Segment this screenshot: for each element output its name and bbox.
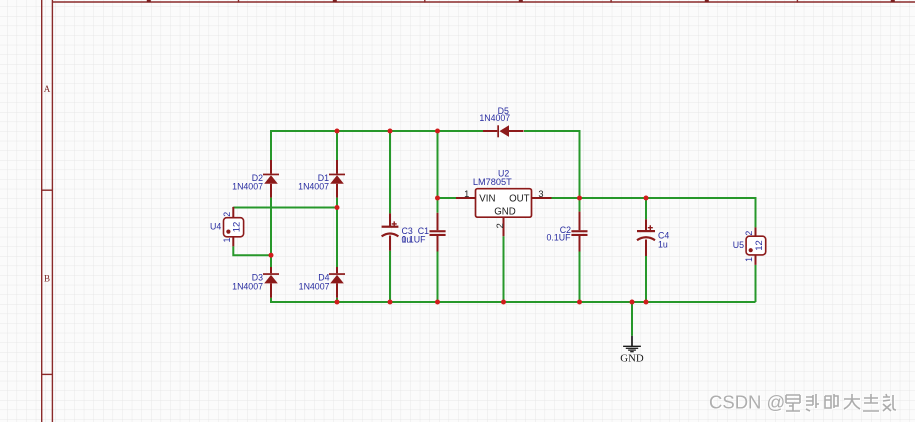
svg-text:1N4007: 1N4007 — [298, 182, 329, 192]
D5 anode pin — [509, 130, 524, 132]
diode D3 1N4007 — [232, 267, 279, 298]
D4 anode pin — [336, 283, 338, 297]
D2 cathode pin — [270, 160, 272, 174]
op-amp U2 LM7805T regulator — [456, 169, 552, 237]
D2 cathode bar — [263, 174, 279, 176]
junction C1 top rail — [435, 129, 440, 134]
C1 bottom pin — [437, 236, 439, 252]
svg-text:12: 12 — [232, 222, 243, 233]
svg-text:1N4007: 1N4007 — [479, 113, 510, 123]
svg-text:2: 2 — [222, 212, 232, 217]
C1 top pin — [437, 213, 439, 230]
C4 negative pin — [645, 240, 647, 257]
connector U5 — [733, 227, 766, 265]
D5 cathode pin — [483, 130, 497, 132]
U2 body — [476, 189, 532, 218]
svg-text:1N4007: 1N4007 — [299, 281, 330, 291]
wire D2-D3 mid — [270, 198, 272, 267]
C3 negative pin — [389, 236, 391, 251]
svg-text:GND: GND — [620, 353, 644, 365]
capacitor C2 0.1UF — [547, 212, 588, 252]
svg-text:GND: GND — [494, 207, 516, 218]
watermark — [709, 392, 786, 414]
ground symbol GND — [620, 336, 644, 365]
C3 positive plate — [382, 226, 399, 228]
wire U4 pin1 to node — [233, 246, 271, 255]
wire U2 GND down — [503, 236, 505, 302]
D2 anode pin — [270, 184, 272, 198]
svg-text:1N4007: 1N4007 — [232, 182, 263, 192]
U2 pin 3 OUT lead — [532, 197, 552, 199]
C2 bottom plate — [571, 234, 587, 236]
C2 top plate — [571, 230, 587, 232]
ground bar 2 — [626, 347, 638, 349]
junction C1 bottom rail — [435, 300, 440, 305]
U2 pin 2 GND lead — [503, 217, 505, 236]
junction C4 output node — [644, 196, 649, 201]
C1 top plate — [430, 230, 446, 232]
D1 anode pin — [336, 184, 338, 198]
D4 cathode bar — [329, 273, 345, 275]
wire gnd stem — [631, 302, 633, 336]
C4 positive plate — [637, 230, 655, 232]
svg-text:1: 1 — [222, 237, 232, 242]
connector U4 — [210, 207, 244, 246]
ground bar 3 — [628, 349, 636, 351]
wire U4 pin2 to node — [233, 207, 337, 209]
D5 cathode bar — [497, 125, 499, 137]
C4 plus sign — [648, 225, 653, 230]
D2 triangle — [264, 175, 278, 184]
wire U2 OUT rail — [552, 197, 756, 199]
D3 cathode pin — [270, 267, 272, 273]
diode D1 1N4007 — [298, 160, 345, 198]
svg-text:CSDN @: CSDN @ — [709, 392, 785, 413]
capacitor C3 1u (electrolytic) — [382, 213, 413, 250]
D3 cathode bar — [263, 273, 279, 275]
C2 bottom pin — [579, 236, 581, 252]
wire C3 bottom — [389, 251, 391, 302]
U5 polarity dot — [749, 248, 753, 252]
svg-text:1N4007: 1N4007 — [232, 281, 263, 291]
svg-text:0.1UF: 0.1UF — [402, 235, 427, 245]
C2 top pin — [579, 212, 581, 231]
wire node to U2 VIN — [438, 197, 457, 199]
C3 plus sign — [392, 221, 397, 226]
wire D4 to rail — [336, 298, 338, 302]
C3 positive pin — [389, 213, 391, 226]
svg-text:VIN: VIN — [479, 194, 495, 205]
U5 pin 1 lead — [755, 255, 757, 265]
D4 cathode pin — [336, 267, 338, 273]
junction C3 top rail — [388, 129, 393, 134]
diode D5 1N4007 — [479, 106, 523, 137]
svg-text:2: 2 — [495, 223, 505, 228]
junction C2 / D5 output node — [577, 196, 582, 201]
junction C2 bottom rail — [577, 300, 582, 305]
junction U4 pin2 / D1-D4 node — [335, 205, 340, 210]
svg-text:A: A — [44, 84, 51, 94]
svg-text:B: B — [44, 274, 50, 284]
junction C4 bottom rail — [644, 300, 649, 305]
wire C4 top — [645, 198, 647, 219]
U4 polarity dot — [226, 230, 230, 234]
svg-text:2: 2 — [744, 231, 754, 236]
D1 cathode bar — [329, 174, 345, 176]
wire D1 branch — [336, 131, 338, 160]
wire C1 top — [437, 131, 439, 213]
junction GND symbol stem — [630, 300, 635, 305]
D1 cathode pin — [336, 160, 338, 174]
junction U2 GND bottom rail — [501, 300, 506, 305]
U2 pin 1 VIN lead — [456, 197, 476, 199]
ground stem — [631, 336, 633, 346]
wire C2 top — [579, 198, 581, 212]
C4 curved negative plate — [637, 237, 655, 240]
wire right column top — [755, 197, 757, 227]
wire top rail left — [271, 130, 483, 132]
C1 bottom plate — [430, 234, 446, 236]
U5 pin 2 lead — [755, 227, 757, 236]
junction D4 bottom rail — [335, 300, 340, 305]
D3 triangle — [264, 275, 278, 284]
ground bar 1 — [623, 345, 641, 347]
svg-text:LM7805T: LM7805T — [473, 177, 512, 187]
wire top rail right of D5 — [524, 131, 580, 198]
wire C2 bottom — [579, 252, 581, 303]
svg-text:U5: U5 — [733, 240, 744, 250]
U4 pin 1 lead — [232, 237, 234, 247]
svg-text:1: 1 — [464, 189, 469, 199]
wire C3 top — [389, 131, 391, 213]
D3 anode pin — [270, 283, 272, 297]
capacitor C4 1u (electrolytic) — [637, 219, 669, 256]
wire bottom rail — [271, 298, 756, 302]
wire C1 bottom — [437, 252, 439, 303]
D4 triangle — [330, 275, 344, 284]
diode D2 1N4007 — [232, 160, 279, 198]
svg-text:12: 12 — [754, 240, 765, 251]
U5 body — [746, 236, 766, 255]
svg-text:1u: 1u — [658, 240, 668, 250]
junction D1 top rail — [335, 129, 340, 134]
wire D1-D4 mid — [336, 198, 338, 267]
U4 body — [224, 218, 244, 237]
junction C1 / VIN node — [435, 196, 440, 201]
junction U4 pin1 / D2-D3 node — [269, 253, 274, 258]
svg-text:1: 1 — [744, 257, 754, 262]
ground bar 4 — [630, 351, 634, 353]
svg-text:U4: U4 — [210, 221, 221, 231]
diode D4 1N4007 — [299, 267, 345, 298]
svg-text:3: 3 — [538, 189, 543, 199]
C4 positive pin — [645, 219, 647, 230]
wire C4 bottom — [645, 256, 647, 302]
D1 triangle — [330, 175, 344, 184]
wire D2 branch — [270, 130, 272, 160]
C3 curved negative plate — [382, 234, 399, 237]
D5 triangle — [499, 125, 509, 137]
svg-text:OUT: OUT — [509, 194, 530, 205]
svg-text:0.1UF: 0.1UF — [547, 233, 572, 243]
junction C3 bottom rail — [388, 300, 393, 305]
wire right column bottom — [755, 265, 757, 302]
U4 pin 2 lead — [232, 207, 234, 218]
capacitor C1 0.1UF — [402, 213, 446, 252]
